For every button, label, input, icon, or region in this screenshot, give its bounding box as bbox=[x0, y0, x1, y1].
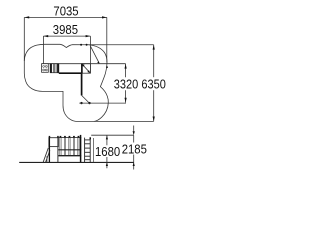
dim 3320 bbox=[79, 64, 126, 103]
svg-text:6350: 6350 bbox=[141, 76, 165, 91]
svg-text:1680: 1680 bbox=[95, 144, 120, 159]
svg-text:7035: 7035 bbox=[53, 3, 78, 18]
fence balusters bbox=[60, 137, 79, 155]
fence post caps bbox=[60, 135, 82, 138]
thick walkway line horizontal bbox=[59, 72, 83, 74]
rear post right of ladder bbox=[93, 138, 95, 162]
svg-text:2185: 2185 bbox=[122, 141, 147, 156]
ladder (elevation) bbox=[85, 138, 91, 163]
fence rails bbox=[58, 149, 81, 151]
svg-text:3320: 3320 bbox=[114, 76, 138, 91]
bottom access ramp diagonal bbox=[82, 95, 90, 103]
top height extension line bbox=[91, 134, 134, 136]
dim 3985 line bbox=[43, 36, 90, 73]
slide box (elevation) bbox=[49, 138, 59, 147]
fence top rail bbox=[58, 136, 81, 138]
ladder rail cap bbox=[90, 137, 92, 139]
climbing box with 4 posts bbox=[42, 64, 49, 73]
dim 7035 line bbox=[24, 17, 107, 62]
svg-text:3985: 3985 bbox=[53, 22, 78, 37]
slide chute (plan) bbox=[91, 46, 100, 63]
dim 1680 bbox=[106, 135, 108, 168]
platform corridor line bbox=[42, 63, 126, 65]
ground line bbox=[19, 161, 133, 163]
platform diagonal with arrows bbox=[82, 64, 90, 72]
tower platform square bbox=[82, 64, 91, 73]
post dots on top outline bbox=[80, 44, 82, 46]
dim 7035 arrows bbox=[24, 16, 106, 18]
dim 6350 bbox=[89, 45, 154, 122]
dim 2185 bbox=[133, 126, 135, 170]
dim 3985 arrows bbox=[43, 35, 90, 37]
plan outline bbox=[24, 44, 108, 121]
fence right post bbox=[80, 137, 82, 162]
ladder (plan, hatched) bbox=[50, 64, 59, 73]
thick walkway line vertical bbox=[81, 73, 83, 95]
post dot on right pod edge bbox=[106, 66, 108, 68]
post dots bottom bbox=[80, 102, 82, 104]
slide (elevation) bbox=[43, 148, 48, 162]
box posts bbox=[48, 138, 50, 162]
